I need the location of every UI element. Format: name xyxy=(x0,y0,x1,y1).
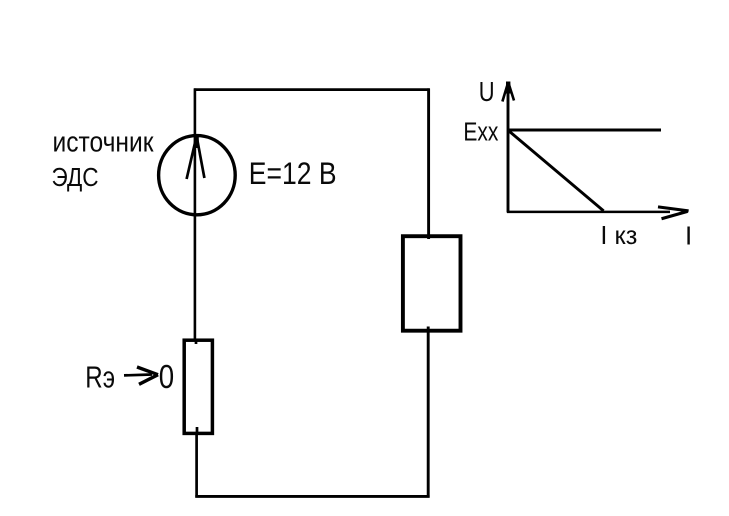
graph U axis (vertical) xyxy=(507,84,510,213)
svg-text:Rэ: Rэ xyxy=(85,359,115,394)
svg-text:Exx: Exx xyxy=(463,117,498,147)
svg-text:E=12 В: E=12 В xyxy=(249,155,337,191)
svg-text:ЭДС: ЭДС xyxy=(52,162,99,192)
graph I axis (horizontal) xyxy=(507,211,670,214)
wire right vertical lower xyxy=(427,327,430,498)
EMF arrow head xyxy=(187,137,197,179)
svg-text:источник: источник xyxy=(53,127,154,159)
resistor Rэ (left) xyxy=(184,340,212,433)
resistor right (load) xyxy=(403,236,461,331)
wire right vertical upper xyxy=(427,88,430,238)
load resistor top stub xyxy=(427,235,430,239)
resistor Rэ top stub xyxy=(195,340,198,344)
svg-text:I: I xyxy=(685,223,692,251)
arrow Rэ to 0 xyxy=(124,373,152,377)
svg-text:I кз: I кз xyxy=(600,222,637,250)
resistor Rэ bottom stub xyxy=(196,427,199,433)
wire top horizontal xyxy=(194,88,430,91)
graph load line (diagonal) xyxy=(509,131,604,211)
wire left vertical upper (through source) xyxy=(194,88,197,342)
wire left vertical lower xyxy=(195,427,198,498)
graph U axis arrow head xyxy=(502,82,508,101)
svg-text:U: U xyxy=(479,75,495,107)
EMF source circle xyxy=(159,136,236,215)
graph I axis arrow head xyxy=(658,207,689,211)
graph Exx level line xyxy=(509,129,661,132)
load resistor bottom stub xyxy=(427,327,430,331)
svg-text:0: 0 xyxy=(159,358,174,395)
wire bottom horizontal xyxy=(195,495,429,498)
